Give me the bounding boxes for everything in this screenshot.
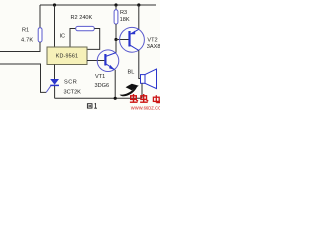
speaker BL bbox=[141, 69, 157, 89]
wire: top +V rail bbox=[40, 4, 156, 6]
node: junction dot VT2 emitter on rail bbox=[137, 3, 140, 6]
svg-text:3CT2K: 3CT2K bbox=[64, 89, 82, 95]
node: junction dot rail/IC pin bbox=[53, 3, 56, 6]
watermark swoosh bbox=[120, 84, 139, 96]
background bbox=[0, 0, 160, 110]
svg-text:R2 240K: R2 240K bbox=[71, 15, 93, 21]
thyristor SCR bbox=[46, 79, 59, 92]
wire: VT2 collector down to speaker bbox=[139, 50, 141, 78]
wire: speaker return to ground rail bbox=[141, 83, 143, 98]
node: junction dot emitter/ground rail bbox=[114, 97, 117, 100]
wire: R3 bottom to base node bbox=[115, 24, 117, 40]
svg-text:VT1: VT1 bbox=[95, 74, 105, 80]
wire: IC right pin 2 to VT1 base bbox=[87, 60, 104, 62]
svg-text:R3: R3 bbox=[120, 10, 127, 16]
resistor R1 bbox=[38, 28, 42, 42]
wire: lower-left terminal to SCR gate jog bbox=[0, 64, 46, 92]
wire: rail down to VT2 emitter bbox=[138, 5, 140, 29]
wire: base node to VT2 base bbox=[116, 39, 129, 41]
svg-text:3DG6: 3DG6 bbox=[95, 83, 110, 89]
wire: IC bottom pin to SCR anode bbox=[54, 65, 56, 80]
svg-text:BL: BL bbox=[128, 69, 135, 75]
svg-text:SCR: SCR bbox=[64, 79, 77, 85]
wire: rail to IC top pin bbox=[54, 5, 56, 47]
node: junction dot VT2 base node bbox=[114, 38, 117, 41]
wire: base node down to VT1 collector bbox=[115, 40, 117, 53]
svg-text:R1: R1 bbox=[22, 28, 29, 34]
watermark text dian bbox=[153, 95, 160, 102]
wire: VT1 emitter to bottom rail bbox=[114, 70, 116, 99]
wire: bottom ground rail bbox=[55, 97, 142, 99]
wire: R1 bottom to upper-left terminal bbox=[0, 42, 40, 52]
transistor VT2 bbox=[120, 27, 145, 52]
wire: SCR cathode to bottom rail bbox=[54, 86, 56, 98]
wire: R2 left lead down to IC top bbox=[70, 29, 76, 48]
svg-text:18K: 18K bbox=[120, 17, 130, 23]
transistor VT1 bbox=[97, 50, 119, 72]
svg-text:4.7K: 4.7K bbox=[21, 37, 33, 43]
op-amp U1: IC block KD-9561 bbox=[47, 47, 87, 65]
wire: R2 right lead down to IC right pin 1 bbox=[87, 29, 100, 50]
wire: rail to R3 top bbox=[115, 5, 117, 10]
watermark text chong 1 bbox=[130, 94, 138, 102]
wire: left drop from rail to R1 top bbox=[39, 5, 41, 28]
svg-text:WWW.66DZ.COM: WWW.66DZ.COM bbox=[131, 106, 160, 110]
watermark text chong 2 bbox=[140, 94, 148, 102]
resistor R2 bbox=[76, 26, 95, 30]
svg-text:KD-9561: KD-9561 bbox=[56, 53, 78, 59]
node: junction dot R3 top on rail bbox=[114, 3, 117, 6]
svg-text:IC: IC bbox=[60, 34, 66, 40]
label figure caption 图1 bbox=[87, 104, 97, 109]
resistor R3 bbox=[114, 10, 118, 24]
svg-text:VT2: VT2 bbox=[147, 37, 157, 43]
svg-text:3AX81: 3AX81 bbox=[147, 44, 160, 50]
